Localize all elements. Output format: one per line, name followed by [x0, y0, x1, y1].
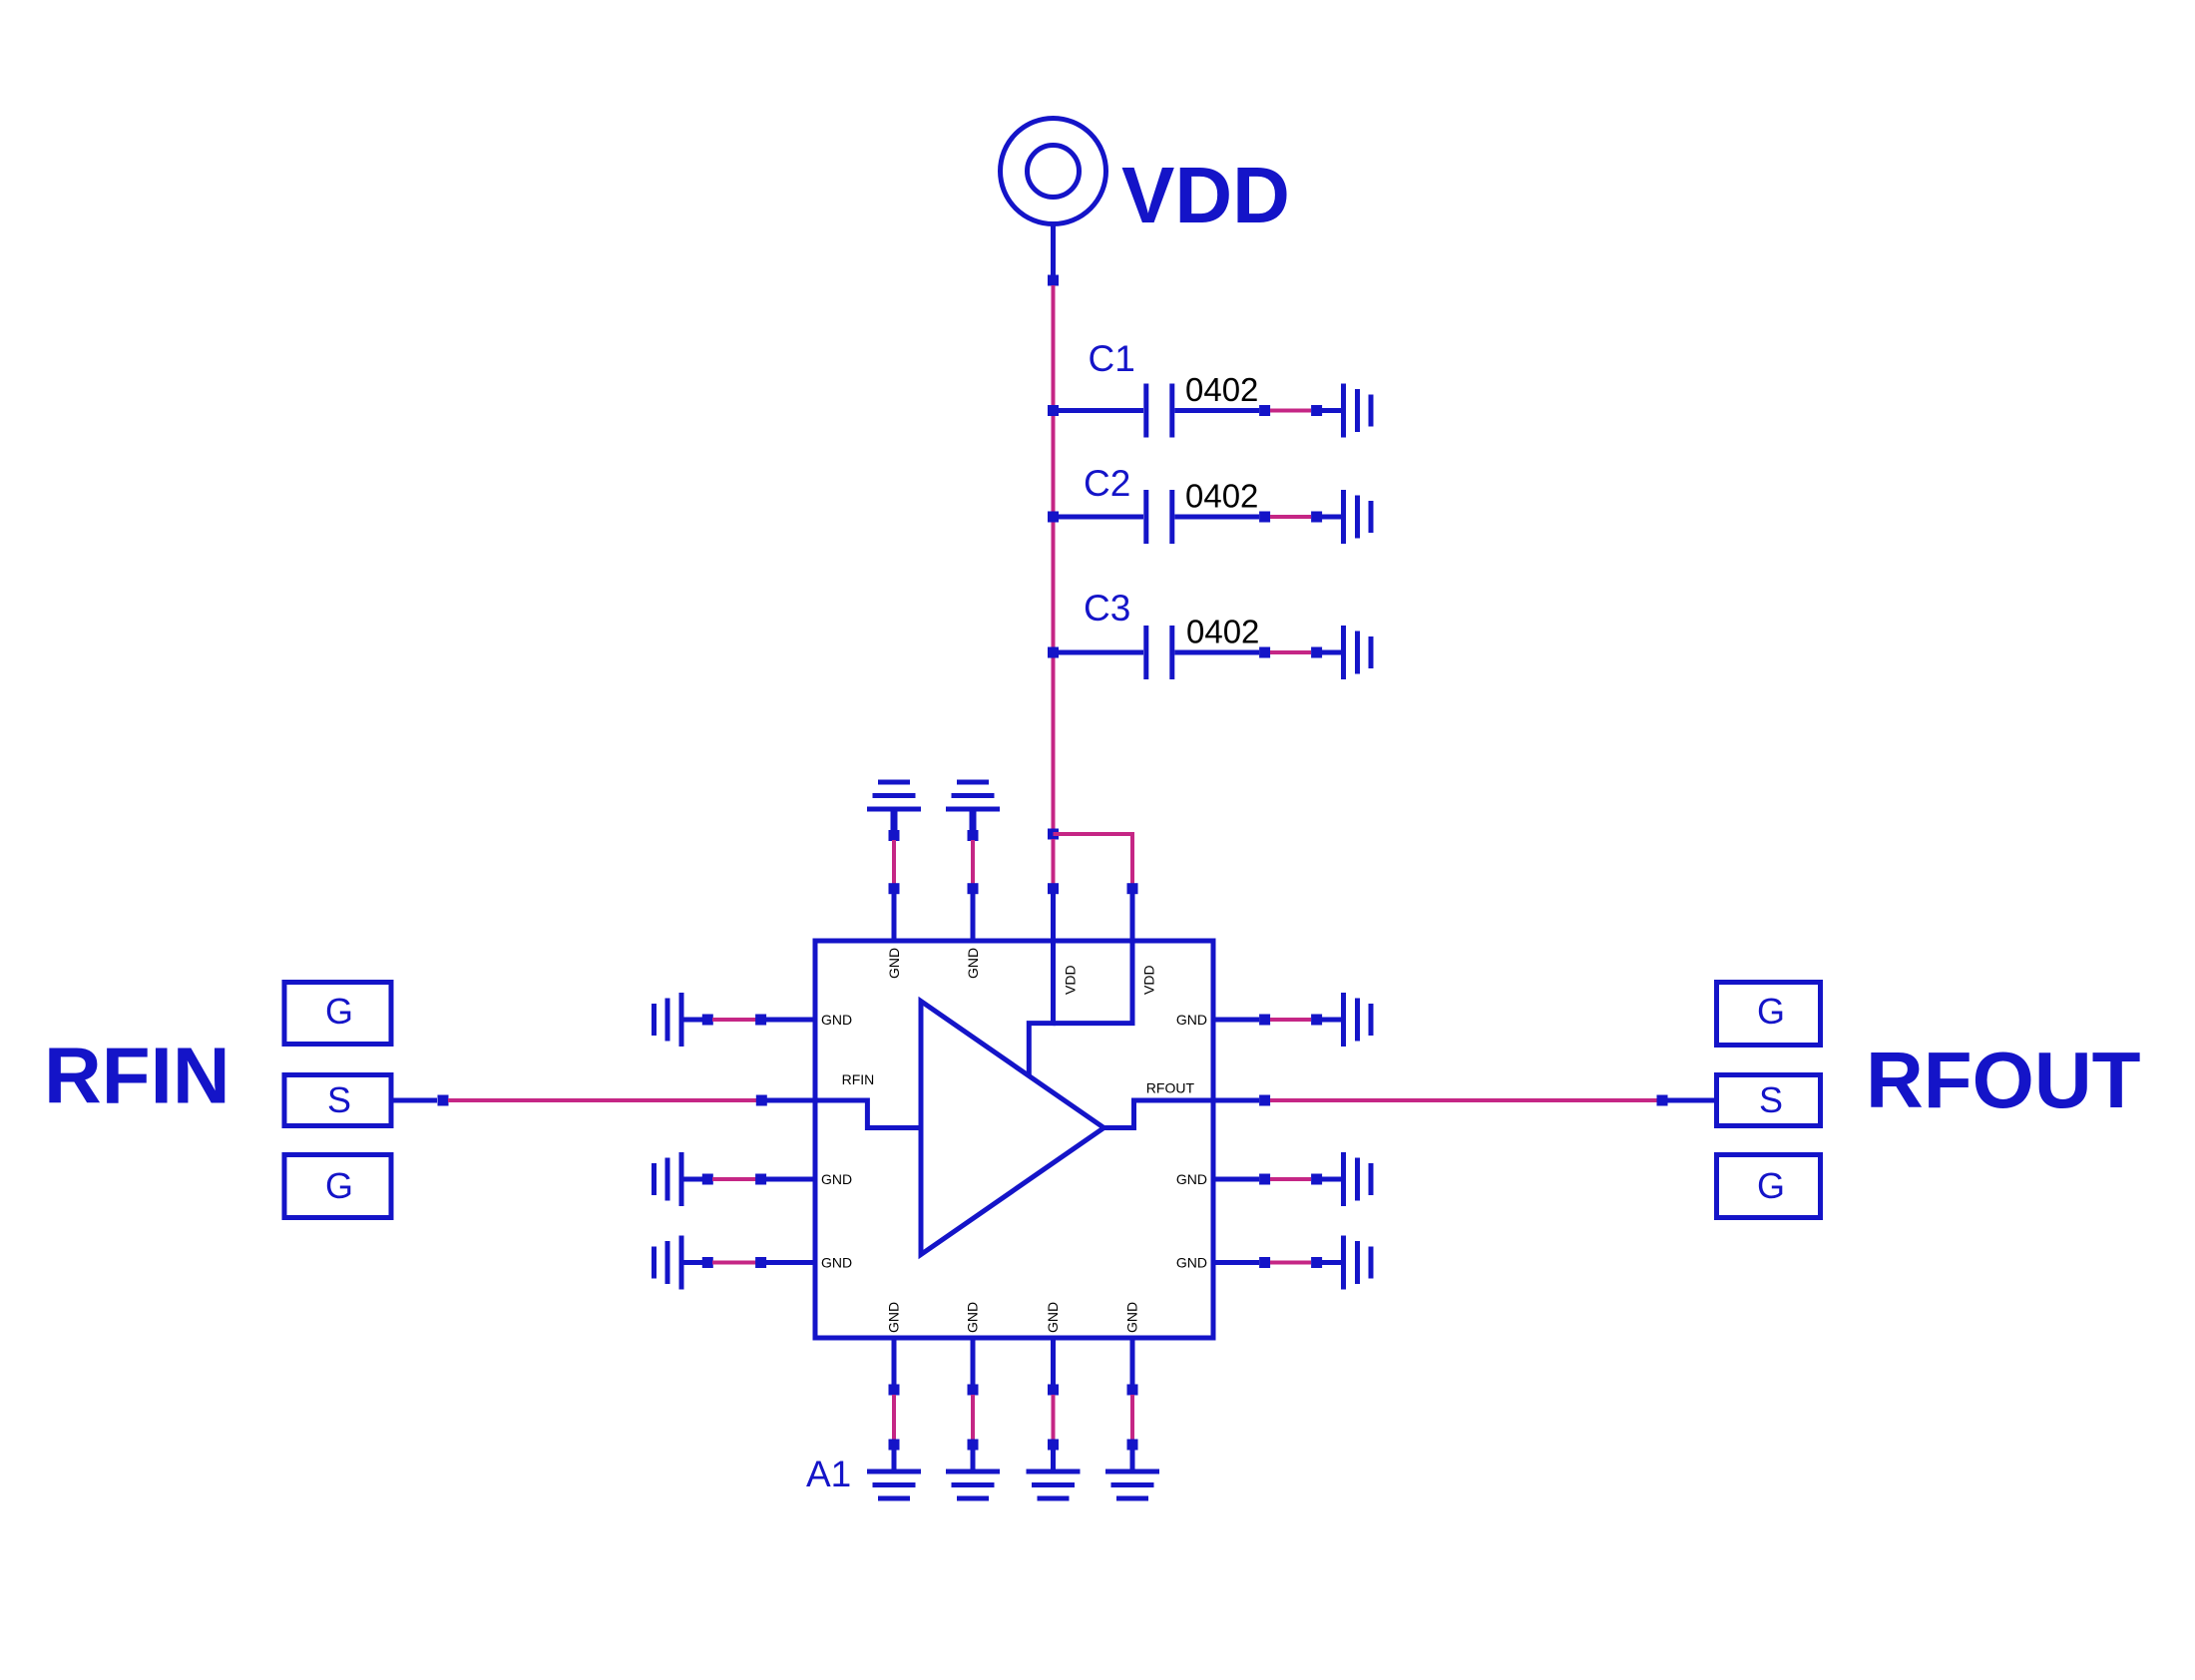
svg-text:VDD: VDD — [1121, 151, 1290, 239]
junction — [968, 883, 979, 894]
wire left gnd (magenta) — [712, 1177, 756, 1181]
junction — [755, 1174, 766, 1185]
junction — [1311, 1257, 1322, 1268]
svg-text:0402: 0402 — [1185, 371, 1258, 408]
wire right gnd stub — [1213, 1018, 1259, 1023]
wire top gnd (magenta) — [892, 840, 896, 884]
wire C3 to gnd net — [1174, 650, 1259, 655]
junction — [1127, 1385, 1138, 1396]
svg-text:0402: 0402 — [1186, 614, 1259, 650]
amplifier triangle U1 — [921, 1002, 1103, 1255]
port VDD — [1001, 119, 1106, 224]
svg-text:G: G — [1757, 1165, 1785, 1206]
wire RFIN to pin — [766, 1098, 815, 1103]
junction — [968, 830, 979, 841]
junction — [1259, 1257, 1270, 1268]
pad S (out) — [1717, 1075, 1821, 1126]
svg-text:GND: GND — [965, 948, 981, 979]
junction — [1048, 1440, 1059, 1451]
junction VDD corner — [1048, 829, 1059, 840]
wire VDD trunk (magenta) — [1052, 285, 1056, 834]
wire VDD to C2 — [1054, 515, 1144, 520]
ground (bottom pin) — [1027, 1470, 1081, 1501]
junction — [702, 1257, 713, 1268]
ground (C3) — [1341, 626, 1374, 679]
svg-text:RFOUT: RFOUT — [1146, 1080, 1195, 1096]
svg-text:GND: GND — [965, 1302, 981, 1333]
svg-text:S: S — [1759, 1079, 1783, 1120]
junction C2 gnd b — [1311, 512, 1322, 523]
junction VDD / C2 — [1048, 512, 1059, 523]
wire left gnd stub — [684, 1177, 703, 1182]
wire bottom gnd pin — [1130, 1338, 1135, 1385]
wire RFOUT internal — [1103, 1100, 1213, 1128]
wire VDD internal — [1029, 941, 1053, 1075]
pad G (in top) — [284, 983, 391, 1045]
junction — [889, 883, 900, 894]
wire top gnd stub — [970, 809, 977, 831]
wire left gnd stub — [684, 1260, 703, 1265]
svg-text:GND: GND — [821, 1171, 852, 1187]
svg-text:GND: GND — [886, 948, 902, 979]
wire C2 gnd (magenta) — [1270, 515, 1311, 519]
wire VDD drop 1 (magenta) — [1052, 839, 1056, 884]
ground (bottom pin) — [867, 1470, 921, 1501]
IC A1 body — [815, 941, 1213, 1338]
wire VDD pin 1 — [1051, 894, 1056, 941]
wire left gnd to pin — [766, 1260, 815, 1265]
junction — [1127, 1440, 1138, 1451]
junction RFIN a — [438, 1095, 449, 1106]
svg-text:RFOUT: RFOUT — [1866, 1036, 2141, 1124]
wire right gnd stub — [1213, 1177, 1259, 1182]
wire bottom gnd (magenta) — [1052, 1395, 1056, 1440]
ground (C1) — [1341, 384, 1374, 438]
svg-text:A1: A1 — [806, 1454, 851, 1494]
junction — [968, 1385, 979, 1396]
ground (top pin) — [867, 780, 921, 812]
svg-text:GND: GND — [821, 1255, 852, 1271]
wire bottom gnd (magenta) — [971, 1395, 975, 1440]
svg-text:C1: C1 — [1089, 338, 1135, 379]
wire right gnd stub — [1213, 1260, 1259, 1265]
wire C2 to gnd net — [1174, 515, 1259, 520]
junction VDD / C3 — [1048, 647, 1059, 658]
wire right gnd stub 2 — [1322, 1018, 1341, 1023]
ground (right pin) — [1341, 1236, 1374, 1290]
junction C3 gnd b — [1311, 647, 1322, 658]
svg-text:VDD: VDD — [1141, 965, 1157, 995]
wire top gnd (magenta) — [971, 840, 975, 884]
wire C2 gnd stub — [1322, 515, 1341, 520]
wire bottom gnd (magenta) — [892, 1395, 896, 1440]
svg-text:GND: GND — [821, 1012, 852, 1028]
svg-text:GND: GND — [886, 1302, 902, 1333]
junction C3 gnd a — [1259, 647, 1270, 658]
junction — [755, 1257, 766, 1268]
junction — [1259, 1174, 1270, 1185]
svg-text:S: S — [327, 1079, 351, 1120]
svg-text:G: G — [325, 991, 353, 1032]
wire left gnd (magenta) — [712, 1018, 756, 1022]
wire VDD pin 2 — [1130, 894, 1135, 941]
wire RFOUT (magenta) — [1270, 1098, 1657, 1102]
wire RFIN (magenta) — [448, 1098, 756, 1102]
svg-text:G: G — [1757, 991, 1785, 1032]
wire RFIN from pad S — [391, 1098, 438, 1103]
junction — [1048, 883, 1059, 894]
pad G (in bottom) — [284, 1155, 391, 1218]
wire C3 gnd (magenta) — [1270, 650, 1311, 654]
wire RFOUT to pad S — [1667, 1098, 1714, 1103]
svg-text:G: G — [325, 1165, 353, 1206]
ground (bottom pin) — [1105, 1470, 1159, 1501]
junction — [889, 1440, 900, 1451]
wire VDD to C1 — [1054, 408, 1144, 413]
junction RFIN b — [756, 1095, 767, 1106]
svg-text:VDD: VDD — [1063, 965, 1079, 995]
ground (top pin) — [946, 780, 1000, 812]
junction — [1311, 1015, 1322, 1026]
wire top gnd stub — [891, 809, 898, 831]
junction RFOUT a — [1259, 1095, 1270, 1106]
wire RFIN internal — [815, 1100, 921, 1128]
wire VDD branch (magenta) — [1054, 834, 1133, 884]
wire bottom gnd stub — [971, 1450, 976, 1470]
ground (C2) — [1341, 490, 1374, 544]
ground (bottom pin) — [946, 1470, 1000, 1501]
capacitor C1 — [1143, 384, 1174, 438]
wire bottom gnd pin — [1051, 1338, 1056, 1385]
junction — [889, 830, 900, 841]
ground (right pin) — [1341, 1152, 1374, 1206]
wire C3 gnd stub — [1322, 650, 1341, 655]
junction C1 gnd b — [1311, 405, 1322, 416]
wire right gnd (magenta) — [1270, 1177, 1311, 1181]
wire right gnd (magenta) — [1270, 1018, 1311, 1022]
svg-text:RFIN: RFIN — [44, 1032, 230, 1120]
ground (left pin) — [652, 1152, 684, 1206]
capacitor C2 — [1143, 490, 1174, 544]
wire VDD to C3 — [1054, 650, 1144, 655]
junction — [702, 1174, 713, 1185]
svg-text:GND: GND — [1176, 1255, 1207, 1271]
wire bottom gnd pin — [892, 1338, 897, 1385]
wire bottom gnd stub — [1051, 1450, 1056, 1470]
junction — [1259, 1015, 1270, 1026]
junction — [702, 1015, 713, 1026]
junction — [968, 1440, 979, 1451]
svg-text:GND: GND — [1124, 1302, 1140, 1333]
wire top gnd to pin — [971, 894, 976, 941]
wire bottom gnd stub — [1130, 1450, 1135, 1470]
junction VDD port — [1048, 275, 1059, 286]
wire bottom gnd stub — [892, 1450, 897, 1470]
wire VDD internal 2 — [1054, 941, 1133, 1024]
svg-text:GND: GND — [1176, 1171, 1207, 1187]
capacitor C3 — [1143, 626, 1174, 679]
wire C1 gnd (magenta) — [1270, 409, 1311, 413]
junction — [755, 1015, 766, 1026]
junction — [889, 1385, 900, 1396]
svg-text:RFIN: RFIN — [842, 1071, 875, 1087]
junction VDD / C1 — [1048, 405, 1059, 416]
wire RFOUT from pin — [1213, 1098, 1259, 1103]
wire left gnd to pin — [766, 1018, 815, 1023]
svg-text:0402: 0402 — [1185, 478, 1258, 515]
ground (left pin) — [652, 1236, 684, 1290]
junction RFOUT b — [1657, 1095, 1668, 1106]
wire bottom gnd (magenta) — [1130, 1395, 1134, 1440]
wire left gnd stub — [684, 1018, 703, 1023]
wire left gnd to pin — [766, 1177, 815, 1182]
wire bottom gnd pin — [971, 1338, 976, 1385]
wire VDD port stub — [1051, 224, 1056, 278]
junction C1 gnd a — [1259, 405, 1270, 416]
ground (left pin) — [652, 993, 684, 1047]
svg-text:GND: GND — [1176, 1012, 1207, 1028]
wire top gnd to pin — [892, 894, 897, 941]
pad S (in) — [284, 1075, 391, 1126]
wire right gnd stub 2 — [1322, 1177, 1341, 1182]
svg-text:C3: C3 — [1084, 588, 1130, 629]
svg-text:GND: GND — [1045, 1302, 1061, 1333]
junction — [1127, 883, 1138, 894]
svg-text:C2: C2 — [1084, 463, 1130, 504]
wire left gnd (magenta) — [712, 1261, 756, 1265]
wire right gnd (magenta) — [1270, 1261, 1311, 1265]
wire right gnd stub 2 — [1322, 1260, 1341, 1265]
junction — [1048, 1385, 1059, 1396]
pad G (out bottom) — [1717, 1155, 1821, 1218]
junction C2 gnd a — [1259, 512, 1270, 523]
wire C1 gnd stub — [1322, 408, 1341, 413]
ground (right pin) — [1341, 993, 1374, 1047]
pad G (out top) — [1717, 983, 1821, 1046]
wire C1 to gnd net — [1174, 408, 1259, 413]
junction — [1311, 1174, 1322, 1185]
